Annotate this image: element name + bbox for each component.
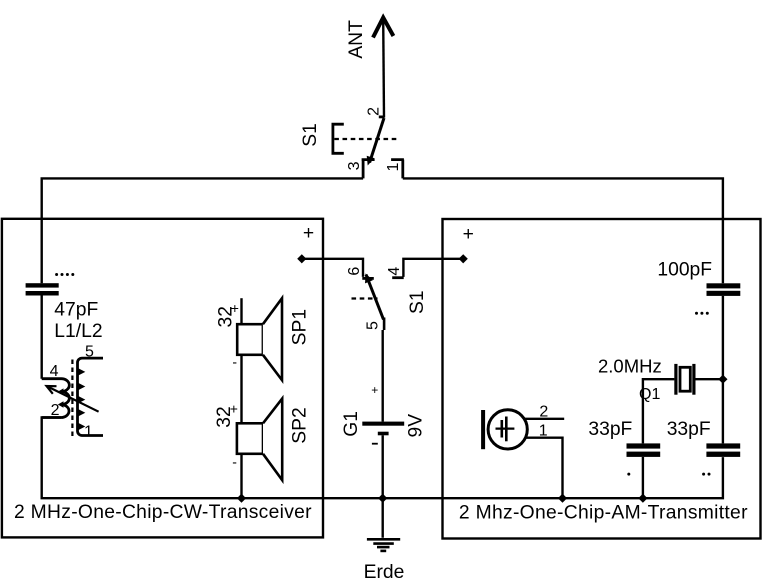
bottom bus wire [42,418,723,499]
svg-text:1: 1 [385,162,402,171]
svg-text:2 Mhz-One-Chip-AM-Transmitter: 2 Mhz-One-Chip-AM-Transmitter [459,503,748,524]
svg-text:+: + [231,300,239,316]
wire SP1 to SP2 [240,355,242,424]
microphone internal capacitor symbol [496,428,515,430]
dots below 100pF [695,312,709,315]
inductor L2 secondary coil [78,358,104,435]
dots below 33pF right [702,473,710,476]
dot below 33pF left [627,473,630,476]
wire 100pF to crystal node [722,296,724,444]
svg-text:5: 5 [365,321,382,330]
transformer core dashed [71,360,73,437]
switch S1b pin 4 tick [392,276,404,279]
svg-text:1: 1 [84,423,93,440]
switch S1a pin 3 terminal [362,160,375,179]
switch S1a mechanical link dashed [334,138,397,140]
switch S1b dashed link [352,297,378,299]
switch S1a pin 2 contact tick [379,116,385,119]
junction right box supply [459,254,468,263]
svg-text:3: 3 [346,161,363,170]
switch S1a pin 1 terminal [391,160,404,179]
svg-text:-: - [232,354,237,370]
speaker SP1 wire stub + [240,298,242,324]
svg-text:G1: G1 [341,411,362,437]
junction speaker bus [237,494,246,503]
svg-text:1: 1 [539,422,548,439]
svg-text:2: 2 [51,402,60,419]
switch S1b lever arrowhead [365,273,373,283]
wire pin1 to right box top [403,178,723,283]
switch S1b lever [366,275,384,320]
wire battery to ground junction [382,435,384,538]
antenna arrow [373,18,393,38]
speaker SP1 [237,324,263,355]
svg-text:6: 6 [346,267,363,276]
svg-text:+: + [371,383,378,397]
svg-text:-: - [232,453,237,469]
switch S1b pin 6 tick [362,277,374,280]
svg-text:2: 2 [539,404,548,421]
junction ground node [378,494,387,503]
dots above 47pF [55,273,74,276]
svg-text:2: 2 [366,107,383,116]
wire antenna shaft [382,19,385,118]
junction 33pF left bus [638,494,647,503]
ground symbol [367,539,400,551]
battery G1 minus plate [378,432,389,436]
svg-text:L1/L2: L1/L2 [54,321,102,342]
battery minus [372,443,378,445]
box 2 MHz-One-Chip-CW-Transceiver [2,219,323,538]
switch S1a lever arrowhead [367,156,375,166]
capacitor 100pF [707,283,741,288]
svg-text:Q1: Q1 [639,386,660,403]
svg-text:5: 5 [85,343,94,360]
svg-text:+: + [303,223,314,244]
wire right supply to switch pin 4 [403,259,463,277]
microphone pin 2 wire [525,418,565,420]
speaker SP2 [237,423,263,454]
capacitor 47pF [26,283,59,287]
svg-text:ANT: ANT [346,20,367,59]
svg-text:33pF: 33pF [667,419,711,440]
svg-text:47pF: 47pF [54,300,98,321]
inductor L1 primary coil [42,379,70,418]
svg-text:2.0MHz: 2.0MHz [598,356,662,377]
capacitor 33pF right [706,443,740,448]
capacitor 33pF left [627,443,661,448]
switch S1a lever [370,118,384,163]
svg-text:+: + [463,224,474,245]
svg-text:4: 4 [50,363,59,380]
svg-text:33pF: 33pF [588,419,632,440]
junction mic ground [558,494,567,503]
switch S1b pin 5 tick [383,318,386,331]
wire 33pF left to bus [642,457,644,498]
svg-text:Erde: Erde [364,562,405,583]
wire pin 5 to battery [382,330,384,422]
microphone back plate bar [481,410,485,449]
svg-text:S1: S1 [300,123,321,147]
microphone circle [488,410,527,449]
svg-text:100pF: 100pF [657,260,712,281]
junction crystal node [718,375,727,384]
box 2 Mhz-One-Chip-AM-Transmitter [443,219,761,539]
wire crystal right [695,378,723,380]
svg-text:SP2: SP2 [290,407,311,443]
crystal Q1 [674,364,677,395]
svg-text:+: + [230,401,238,417]
microphone pin 1 wire [525,438,563,499]
svg-text:S1: S1 [407,290,428,314]
svg-text:SP1: SP1 [290,309,311,345]
svg-text:4: 4 [386,267,403,276]
wire cap to coil [41,296,43,379]
wire left supply to switch pin 6 [302,259,363,277]
wire SP2 to bottom bus [240,454,242,498]
wire crystal left [643,379,675,443]
wire pin3 to left box top [42,178,363,283]
switch S1 actuator bracket [333,124,344,153]
junction left box supply [297,254,306,263]
tuning arrow through transformer [48,387,99,412]
battery G1 plus plate [362,422,404,426]
coil cusp spikes L1 [58,388,64,394]
svg-text:9V: 9V [406,414,427,438]
coil cusp spikes L2 [78,368,86,376]
svg-text:2 MHz-One-Chip-CW-Transceiver: 2 MHz-One-Chip-CW-Transceiver [14,502,312,523]
